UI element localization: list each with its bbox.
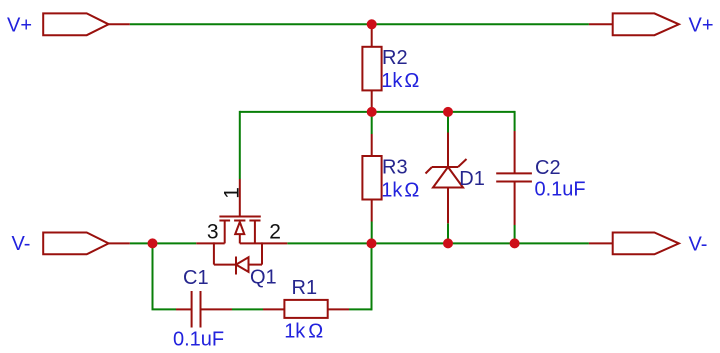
svg-text:Ω: Ω bbox=[404, 70, 419, 92]
svg-text:1k: 1k bbox=[381, 70, 403, 92]
svg-text:C2: C2 bbox=[535, 157, 561, 179]
svg-text:2: 2 bbox=[269, 221, 281, 244]
svg-text:R3: R3 bbox=[382, 157, 408, 179]
svg-text:1k: 1k bbox=[284, 321, 306, 343]
svg-text:1k: 1k bbox=[381, 180, 403, 202]
svg-text:0.1uF: 0.1uF bbox=[173, 328, 224, 350]
svg-text:C1: C1 bbox=[183, 267, 209, 289]
svg-text:V-: V- bbox=[689, 234, 708, 256]
svg-text:V+: V+ bbox=[689, 15, 714, 37]
svg-text:Ω: Ω bbox=[404, 180, 419, 202]
svg-text:3: 3 bbox=[207, 221, 219, 244]
svg-text:R1: R1 bbox=[292, 277, 318, 299]
svg-text:V+: V+ bbox=[7, 15, 32, 37]
svg-text:V-: V- bbox=[12, 233, 31, 255]
svg-text:1: 1 bbox=[221, 187, 244, 199]
svg-text:0.1uF: 0.1uF bbox=[535, 178, 586, 200]
svg-text:D1: D1 bbox=[459, 168, 485, 190]
svg-text:Ω: Ω bbox=[308, 321, 323, 343]
svg-text:Q1: Q1 bbox=[250, 266, 277, 288]
svg-text:R2: R2 bbox=[382, 47, 408, 69]
